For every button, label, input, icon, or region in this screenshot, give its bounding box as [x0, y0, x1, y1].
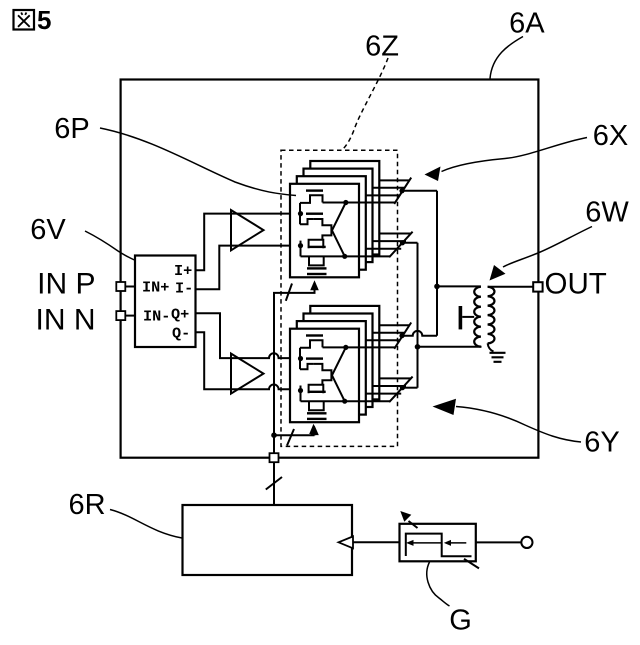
terminal circle — [521, 537, 532, 548]
lower mixer cell 6Y stack — [290, 306, 413, 435]
svg-text:I-: I- — [175, 280, 193, 298]
dashed enclosure 6Z — [281, 150, 398, 446]
upper mixer cell 6X stack — [290, 161, 413, 290]
svg-text:6V: 6V — [30, 214, 66, 246]
figure number 図5 — [14, 5, 52, 35]
node: primary top junction dot — [434, 284, 440, 290]
buffer amplifier Q (triangle) — [231, 354, 264, 394]
control block G — [400, 524, 476, 562]
wire C: lower cell upper output (hop over wire B) to node A — [402, 331, 437, 336]
svg-text:6P: 6P — [54, 113, 89, 145]
wire D: lower cell lower output to node B — [402, 387, 417, 389]
IQ generator box 6V — [135, 256, 196, 348]
wire: G block to terminal circle — [476, 541, 522, 543]
bus slash on upper LO feed — [286, 284, 292, 301]
svg-text:OUT: OUT — [545, 268, 607, 301]
buffer amplifier I (triangle) — [231, 210, 264, 250]
wire: primary bottom lead — [418, 346, 482, 348]
svg-text:Q-: Q- — [172, 325, 190, 343]
transformer center tap bar — [459, 306, 463, 329]
LO generator box 6R — [183, 505, 353, 575]
svg-text:6Z: 6Z — [365, 31, 399, 63]
wire: connector down to LO generator 6R — [273, 462, 275, 505]
G block variable arrow head (top-left) — [409, 521, 418, 528]
OUT terminal square on chip edge — [533, 282, 542, 291]
G block arrow 2 — [450, 542, 466, 544]
svg-text:IN P: IN P — [37, 268, 95, 301]
wire: secondary bottom tail — [488, 343, 494, 351]
control input open arrowhead on 6R — [339, 536, 354, 548]
svg-text:6W: 6W — [585, 197, 629, 229]
svg-text:5: 5 — [37, 5, 51, 35]
terminal square IN N — [116, 311, 125, 320]
transformer 6W secondary winding — [488, 287, 495, 344]
svg-text:G: G — [449, 605, 472, 637]
transformer 6W primary winding — [474, 287, 481, 347]
bus slash below connector — [266, 477, 282, 490]
svg-text:6A: 6A — [509, 8, 545, 40]
transformer center tap lead — [462, 316, 474, 318]
wire B: upper cell lower output down — [402, 243, 417, 388]
svg-text:IN N: IN N — [36, 304, 96, 337]
wire I- from IQ generator to upper cell — [196, 246, 301, 290]
wire: input IN N terminal to box — [121, 315, 135, 317]
wire: input IN P terminal to box — [121, 286, 135, 288]
terminal square IN P — [116, 282, 125, 291]
wire Q- from IQ generator to lower cell (hop over LO line) — [196, 332, 301, 389]
LO distribution: vertical from bottom connector — [274, 290, 315, 453]
G block arrow 1 — [413, 542, 442, 544]
wire Q+ from IQ generator to lower cell (hop over LO line) — [196, 313, 301, 358]
svg-text:IN+: IN+ — [142, 279, 169, 297]
svg-text:I+: I+ — [174, 262, 192, 280]
svg-text:IN-: IN- — [143, 308, 170, 326]
svg-text:6Y: 6Y — [584, 427, 619, 459]
svg-text:Q+: Q+ — [171, 306, 189, 324]
wire: secondary top lead to OUT — [488, 286, 534, 288]
bus slash on lower LO feed — [287, 429, 294, 446]
svg-text:6X: 6X — [593, 120, 628, 152]
wire: control line from G block to 6R — [353, 541, 400, 543]
wire I+ from IQ generator to upper cell — [196, 214, 301, 271]
G block step waveform — [406, 534, 472, 557]
LO connector square on chip edge — [270, 453, 279, 462]
svg-text:6R: 6R — [68, 489, 105, 521]
wire: primary top lead — [437, 285, 481, 287]
node: primary bottom junction dot — [415, 344, 421, 350]
wire A: upper cell upper output to transformer primary top — [402, 191, 437, 336]
G block variable arrow tail (bottom-right) — [464, 559, 479, 569]
LO branch junction dot — [271, 432, 277, 438]
LO arrow into lower cell — [309, 424, 318, 434]
chip outline box 6A — [121, 80, 539, 458]
ground symbol — [490, 353, 506, 362]
